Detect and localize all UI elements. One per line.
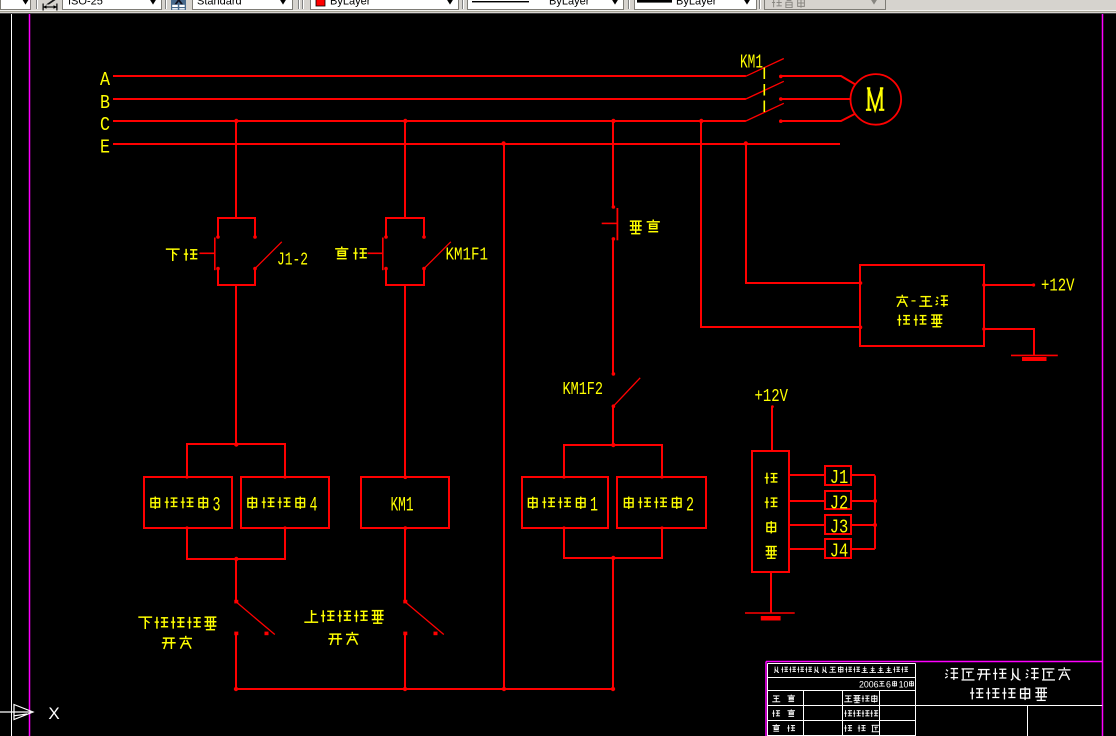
wire lower limit switch to bottom bus <box>235 635 237 690</box>
pause switch actuator <box>602 222 618 224</box>
toolbar combo lineweight ByLayer <box>635 0 757 10</box>
svg-text:E: E <box>100 136 110 158</box>
motor M circle <box>851 74 902 125</box>
contactor KM1 pole B blade <box>746 81 784 99</box>
wire C down to pause switch <box>612 121 614 207</box>
svg-text:2006: 2006 <box>859 679 879 689</box>
junction bottom bus x=405 <box>403 687 407 691</box>
title block cell zu shen <box>772 710 780 717</box>
wire bracket top coils12 <box>564 445 662 477</box>
wire C down to converter input2 <box>701 121 861 327</box>
toolbar combo plot style (disabled) <box>765 0 886 10</box>
wire J bus vertical <box>874 475 876 549</box>
AC-DC converter label line2 (zhuanhuanqi) <box>897 315 910 326</box>
junction bottom bus x=613 <box>611 687 615 691</box>
contactor KM1 pole A blade <box>746 59 784 77</box>
toolbar text style icon <box>171 0 186 10</box>
switch START NO contact blade <box>424 242 451 269</box>
title block column lines <box>803 691 805 736</box>
title block cell gongcheng bianhao <box>844 696 852 702</box>
svg-text:C: C <box>100 114 110 136</box>
switch DOWN NO contact lower dot <box>253 267 257 271</box>
switch START pushbutton upper contact dot <box>384 235 388 239</box>
wire pause switch down to KM1F2 <box>612 240 614 374</box>
coil box 3 (dianci xianquan 3) <box>144 477 232 528</box>
upper limit switch lower terminal dot <box>403 632 407 636</box>
pause switch upper dot <box>612 205 616 209</box>
switch START pushbutton actuator <box>368 252 383 254</box>
svg-text:2: 2 <box>686 495 694 518</box>
title block big title line2 (tong kongzhi dianlu) <box>970 688 983 700</box>
junction bracket bottom coils12 <box>611 556 615 560</box>
junction C at x=405 <box>403 119 407 123</box>
junction E at x=503 <box>501 141 505 145</box>
wire coils12 down to bottom bus <box>612 559 614 690</box>
switch DOWN pushbutton actuator <box>200 252 215 254</box>
svg-text:X: X <box>48 704 59 723</box>
title block cell sheji jieduan <box>844 710 852 717</box>
title block header text (school project) <box>774 667 779 673</box>
junction C at x=701 <box>699 119 703 123</box>
junction bracket bottom coils34 <box>234 557 238 561</box>
title block lower divider <box>916 705 1103 707</box>
wire KM1 pole C to motor <box>781 114 856 122</box>
svg-text:+12V: +12V <box>1041 276 1075 297</box>
wire phase C <box>113 120 746 122</box>
wire receiver to J2 <box>789 500 825 502</box>
junction bracket top coils34 <box>234 442 238 446</box>
coil box 12 stub dots <box>562 475 565 478</box>
converter input2 dot <box>859 326 863 330</box>
coil box 2 (dianci xianquan 2) <box>617 477 706 528</box>
converter output +12V dots <box>982 283 986 287</box>
wire J3 to bus <box>851 524 875 526</box>
UCS icon X axis arrow <box>0 711 31 713</box>
switch DOWN top bracket wire <box>218 218 255 237</box>
coil box 4 (dianci xianquan 4) <box>241 477 329 528</box>
frame magenta vertical line right <box>1102 14 1104 736</box>
motor M label <box>866 88 884 110</box>
lower limit switch floating contact dot <box>265 632 269 636</box>
wire C down to J12 switch <box>235 121 237 218</box>
wire bracket bottom coils34 <box>187 528 285 559</box>
svg-text:-: - <box>909 293 918 310</box>
svg-text:3: 3 <box>213 495 221 518</box>
title block cell shen he <box>772 724 780 731</box>
relay output box J3 <box>825 515 851 534</box>
wire coils34 down to lower limit switch <box>235 559 237 602</box>
label lower limit switch line2 <box>162 638 176 649</box>
title block magenta top border <box>766 661 1102 663</box>
switch DOWN bottom bracket wire <box>218 269 255 285</box>
wire bracket top coils34 <box>187 444 285 477</box>
upper limit switch upper terminal dot <box>403 600 407 604</box>
toolbar combo color ByLayer <box>311 0 459 10</box>
ground symbol converter <box>1011 354 1058 356</box>
switch DOWN pushbutton upper contact dot <box>216 235 220 239</box>
toolbar background <box>0 0 1116 11</box>
label START (qi dong) <box>335 246 348 258</box>
wire +12V to receiver box <box>771 407 773 451</box>
label upper limit switch line1 <box>304 610 318 622</box>
title block lower vertical divider <box>1027 706 1029 736</box>
wire into KM1 coil <box>404 285 406 478</box>
junction C at x=236 <box>234 119 238 123</box>
label PAUSE (zan ting) <box>630 221 642 234</box>
label upper limit switch line2 <box>328 634 342 645</box>
svg-text:+12V: +12V <box>755 386 789 407</box>
svg-text:B: B <box>100 92 110 114</box>
junction E at x=746 <box>744 141 748 145</box>
switch DOWN pushbutton bar <box>214 238 216 271</box>
toolbar dim style icon <box>43 6 57 8</box>
svg-text:10: 10 <box>899 679 909 689</box>
junction bracket top coils12 <box>611 443 615 447</box>
converter output ground wire <box>984 329 1034 355</box>
wire C down to KM1F1 switch <box>404 121 406 218</box>
svg-text:1: 1 <box>590 495 598 518</box>
svg-text:A: A <box>100 69 111 91</box>
svg-text:J3: J3 <box>830 517 849 539</box>
title block magenta left border <box>765 662 767 736</box>
title block cell zhu shen <box>772 696 780 702</box>
pause switch lower dot <box>612 237 616 241</box>
svg-text:ByLayer: ByLayer <box>330 0 371 8</box>
KM1F2 switch upper dot <box>612 372 616 376</box>
title block white outer box <box>768 664 916 736</box>
wire J4 to bus <box>851 548 875 550</box>
contactor KM1 pole B contact dot <box>779 97 783 101</box>
wire upper limit switch to bottom bus <box>404 635 406 690</box>
KM1 coil bottom dot <box>404 526 408 530</box>
label DOWN (xia jiang) <box>166 249 180 261</box>
title block cell bi li chi <box>844 725 852 732</box>
switch START pushbutton lower contact dot <box>384 267 388 271</box>
receiver +12V node dot <box>771 405 774 408</box>
KM1F2 switch lower dot <box>612 404 616 408</box>
switch DOWN NO contact upper dot <box>253 235 257 239</box>
switch START bottom bracket wire <box>386 269 424 285</box>
toolbar combo linetype ByLayer <box>468 0 624 10</box>
wire bottom bus <box>236 688 613 690</box>
toolbar combo Standard <box>193 0 293 10</box>
wire E down to converter input1 <box>746 143 861 283</box>
junction bottom bus x=503 <box>502 687 506 691</box>
svg-text:J2: J2 <box>830 492 849 514</box>
frame magenta vertical line left <box>29 14 31 736</box>
coil box 34 stub dots <box>185 475 188 478</box>
junction J bus at J3 <box>873 523 877 527</box>
wire phase E <box>113 143 840 145</box>
wire E down long feeder <box>503 144 505 690</box>
switch START NO contact lower dot <box>422 267 426 271</box>
title block row lines <box>768 677 916 679</box>
svg-text:J1-2: J1-2 <box>277 251 308 271</box>
junction C at x=613 <box>611 119 615 123</box>
switch DOWN pushbutton lower contact dot <box>216 267 220 271</box>
AC-DC converter label line1 (jiao-zhiliu) <box>896 295 908 307</box>
svg-text:KM1F1: KM1F1 <box>446 246 489 266</box>
svg-text:Standard: Standard <box>197 0 242 8</box>
frame white vertical line <box>11 14 13 736</box>
junction bottom bus x=236 <box>234 687 238 691</box>
switch DOWN NO contact blade <box>255 242 282 269</box>
wire KM1 pole B to motor <box>781 98 851 100</box>
AC-DC converter box <box>860 265 984 346</box>
wire KM1 pole A to motor <box>781 76 856 85</box>
svg-text:KM1F2: KM1F2 <box>563 380 604 400</box>
label lower limit switch line1 <box>138 617 152 629</box>
wire receiver to J4 <box>789 548 825 550</box>
svg-text:J1: J1 <box>830 467 849 489</box>
KM1F2 switch blade <box>613 378 640 406</box>
coil box 1 (dianci xianquan 1) <box>522 477 608 528</box>
wire receiver to J1 <box>789 474 825 476</box>
converter input1 dot <box>859 281 863 285</box>
upper limit switch blade <box>406 602 444 634</box>
relay output box J4 <box>825 539 851 558</box>
contactor KM1 linkage dashed line <box>763 68 765 114</box>
relay output box J2 <box>825 491 851 509</box>
lower limit switch upper terminal dot <box>234 600 238 604</box>
wire feeder into bracket coils34 <box>235 285 237 445</box>
wire receiver to J3 <box>789 524 825 526</box>
svg-text:ByLayer: ByLayer <box>676 0 717 8</box>
pause switch bar <box>616 208 618 240</box>
wire J1 to bus <box>851 474 875 476</box>
lower limit switch lower terminal dot <box>234 632 238 636</box>
svg-text:KM1: KM1 <box>391 495 414 518</box>
toolbar combo (cut off left) <box>1 0 31 10</box>
svg-text:6: 6 <box>886 679 891 689</box>
wire bracket bottom coils12 <box>564 528 662 558</box>
svg-text:ByLayer: ByLayer <box>549 0 590 8</box>
KM1 coil box <box>361 477 449 528</box>
switch START top bracket wire <box>386 218 424 237</box>
toolbar combo ISO-25 <box>63 0 162 10</box>
svg-text:ISO-25: ISO-25 <box>68 0 103 8</box>
wire receiver box to ground <box>770 573 772 614</box>
receiver circuit box (jieshou dianlu) <box>752 451 789 572</box>
contactor KM1 pole C contact dot <box>779 119 783 123</box>
svg-text:4: 4 <box>310 495 318 518</box>
lower limit switch blade <box>237 602 275 634</box>
KM1 coil top dot <box>404 476 408 480</box>
contactor KM1 pole A contact dot <box>779 75 783 79</box>
relay output box J1 <box>825 466 851 485</box>
junction J bus at J2 <box>873 499 877 503</box>
title block big title line1 (yeya shengjiangji yeya xi) <box>945 669 958 680</box>
upper limit switch floating contact dot <box>434 632 438 636</box>
contactor KM1 pole C blade <box>746 103 784 121</box>
wire KM1 coil down <box>404 528 406 602</box>
switch START pushbutton bar <box>382 238 384 271</box>
svg-text:J4: J4 <box>830 541 849 563</box>
wire phase B <box>113 98 746 100</box>
switch START NO contact upper dot <box>422 235 426 239</box>
wire phase A <box>113 75 746 77</box>
wire KM1F2 down to coil bracket <box>612 406 614 445</box>
ground symbol receiver <box>745 612 795 614</box>
wire J2 to bus <box>851 500 875 502</box>
converter output +12V wire <box>984 284 1034 286</box>
